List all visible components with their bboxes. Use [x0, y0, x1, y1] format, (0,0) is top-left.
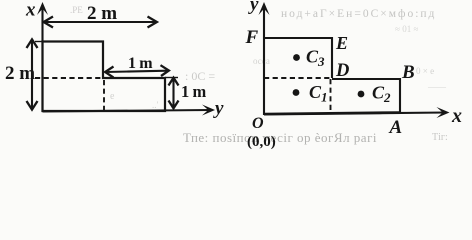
svg-text:осса: осса	[253, 56, 270, 66]
svg-text:2 m: 2 m	[5, 63, 35, 84]
svg-text:е: е	[110, 91, 115, 102]
svg-text:≈ 01 ≈: ≈ 01 ≈	[395, 24, 418, 34]
svg-text:x: x	[451, 105, 462, 127]
svg-text:x: x	[25, 0, 36, 21]
svg-text:..′: ..′	[152, 100, 159, 110]
svg-text:Тпе: поѕїпоп ѵесіг ор ѐогЯл ра: Тпе: поѕїпоп ѵесіг ор ѐогЯл рагі	[183, 130, 377, 145]
svg-text:Тіг:: Тіг:	[432, 132, 448, 143]
svg-text:E: E	[335, 33, 348, 53]
svg-text:B: B	[401, 62, 415, 83]
svg-text:нод+аГ×Ен=0С×мфо:пд: нод+аГ×Ен=0С×мфо:пд	[281, 8, 436, 20]
svg-text:(0,0): (0,0)	[247, 134, 276, 150]
svg-text:——: ——	[427, 82, 447, 92]
svg-text:F: F	[245, 27, 259, 48]
svg-text:.РЕ: .РЕ	[70, 5, 83, 15]
svg-text:D: D	[335, 61, 349, 81]
svg-text:A: A	[389, 117, 403, 138]
svg-text:2 m: 2 m	[87, 3, 117, 24]
svg-text:0 × е: 0 × е	[416, 66, 434, 76]
svg-text:y: y	[248, 0, 259, 15]
svg-text:: 0С =: : 0С =	[185, 69, 215, 83]
svg-text:O: O	[252, 115, 264, 132]
svg-text:y: y	[213, 98, 224, 119]
svg-text:1 m: 1 m	[181, 82, 207, 101]
svg-text:1 m: 1 m	[128, 55, 153, 72]
